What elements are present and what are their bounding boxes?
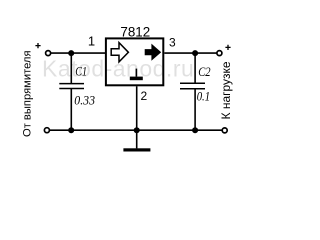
svg-text:1: 1: [88, 33, 95, 48]
pin 3 label: [169, 36, 176, 50]
symbol: input arrow (hollow) inside U1: [111, 43, 128, 62]
watermark: [42, 56, 194, 82]
svg-text:К нагрузке: К нагрузке: [219, 61, 233, 119]
label: От выпрямителя (left input label): [22, 50, 34, 137]
svg-text:0.1: 0.1: [197, 88, 210, 103]
svg-text:2: 2: [141, 89, 148, 103]
node: junction input/C1: [68, 50, 74, 56]
terminal: input + terminal: [46, 51, 51, 56]
node: junction output/C2: [192, 50, 198, 56]
symbol: common terminal mark inside U1: [130, 69, 143, 81]
svg-text:7812: 7812: [120, 24, 150, 39]
op-amp/regulator U1 box (7812): [106, 38, 163, 85]
svg-text:0.33: 0.33: [74, 93, 95, 108]
label: К нагрузке (right output label): [219, 61, 233, 119]
capacitor C2 plates: [180, 83, 205, 89]
node: rail junction C1: [68, 127, 74, 133]
wire: junction down to C2 top plate: [194, 53, 196, 83]
svg-text:От выпрямителя: От выпрямителя: [22, 50, 34, 137]
svg-text:3: 3: [169, 36, 176, 50]
wire: C1 bottom plate to ground rail: [70, 89, 72, 131]
wire: IC pin 2 down to ground rail: [136, 86, 138, 130]
label C2: [198, 65, 210, 79]
svg-text:Katod-anod.ru: Katod-anod.ru: [42, 56, 194, 82]
node: rail junction C2: [192, 127, 198, 133]
svg-text:C2: C2: [198, 65, 210, 79]
node: rail junction pin2/ground: [134, 127, 140, 133]
pin 1 label: [88, 33, 95, 48]
value 0.1: [197, 88, 210, 103]
wire: bottom ground rail: [49, 129, 222, 131]
value 0.33: [74, 93, 95, 108]
plus sign (input +): [35, 43, 40, 48]
pin 2 label: [141, 89, 148, 103]
capacitor C1 plates: [59, 84, 84, 89]
label C1: [75, 65, 87, 79]
terminal: input return terminal: [44, 128, 49, 133]
ground: [123, 130, 150, 151]
plus sign (output +): [225, 45, 230, 50]
wire: junction down to C1 top plate: [70, 53, 72, 84]
wire: input terminal to IC pin 1: [51, 52, 106, 54]
label 7812: [120, 24, 150, 39]
wire: C2 bottom plate to ground rail: [194, 89, 196, 131]
symbol: output arrow (filled) inside U1: [145, 44, 162, 61]
wire: IC pin 3 to output terminal: [164, 52, 217, 54]
terminal: output + terminal: [217, 51, 222, 56]
terminal: output return terminal: [222, 128, 227, 133]
